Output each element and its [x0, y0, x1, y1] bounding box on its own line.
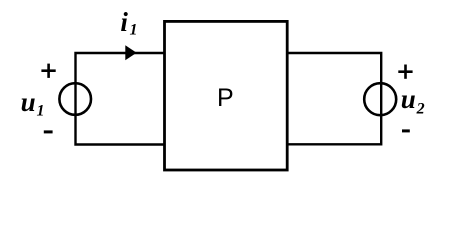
polarity plus of u1 [41, 64, 55, 78]
arrowhead current i1 [125, 45, 136, 60]
voltage source u1 circle [59, 83, 91, 115]
label i1 [120, 7, 137, 39]
polarity minus of u2 [402, 129, 410, 132]
svg-text:i: i [120, 7, 128, 37]
svg-text:P: P [217, 84, 234, 112]
voltage source u2 circle [364, 83, 396, 115]
two-port network box P [165, 21, 288, 170]
polarity minus of u1 [44, 130, 53, 133]
label u1 [21, 87, 45, 120]
label u2 [401, 84, 425, 118]
wire right loop (port 2 to source u2) [287, 53, 381, 144]
svg-text:u: u [21, 87, 36, 117]
polarity plus of u2 [398, 65, 412, 79]
svg-text:1: 1 [130, 22, 138, 39]
svg-text:1: 1 [37, 102, 45, 119]
svg-text:u: u [401, 84, 416, 114]
svg-text:2: 2 [416, 101, 425, 118]
wire left loop (source u1 to port 1) [76, 53, 165, 145]
